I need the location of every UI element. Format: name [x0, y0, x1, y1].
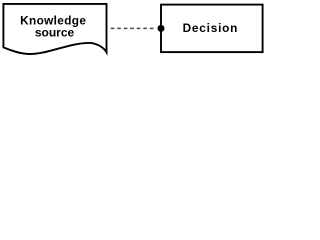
- decision box: [161, 5, 263, 53]
- svg-text:Decision: Decision: [183, 21, 239, 35]
- wire: dashed connector: [111, 27, 154, 29]
- knowledge source document shape: [3, 4, 106, 54]
- background: [0, 0, 266, 60]
- svg-text:source: source: [35, 25, 75, 39]
- node junction dot: [158, 25, 165, 32]
